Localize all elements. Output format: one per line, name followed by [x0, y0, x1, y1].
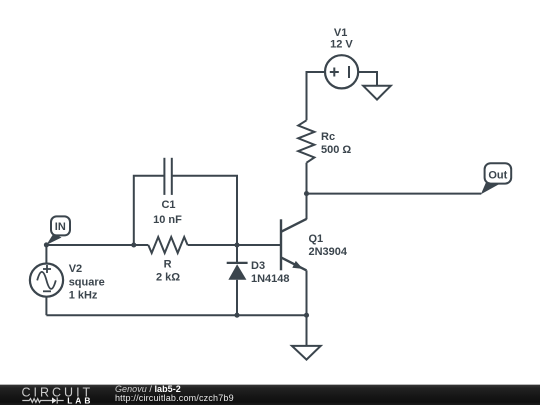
svg-text:Out: Out: [488, 170, 507, 182]
footer title text: [115, 385, 234, 404]
resistor R: [148, 237, 187, 253]
ground (at V1): [363, 86, 391, 100]
svg-text:C1: C1: [161, 199, 175, 211]
svg-text:Rc: Rc: [321, 131, 335, 143]
CircuitLab logo: [21, 384, 101, 405]
svg-text:Q1: Q1: [309, 233, 324, 245]
svg-text:2 kΩ: 2 kΩ: [156, 272, 180, 284]
wire R to Q1 base: [188, 244, 281, 246]
transistor Q1 emitter arrow: [292, 261, 303, 269]
wire V2 bottom lead: [45, 297, 47, 316]
footer bar: [0, 384, 540, 405]
capacitor C1: [164, 158, 171, 195]
transistor Q1: [281, 219, 307, 271]
wire V1 positive lead to collector rail: [307, 72, 326, 120]
node junction D3 cathode / base rail: [234, 242, 239, 247]
wire V1 negative lead: [358, 72, 377, 86]
svg-text:V1: V1: [334, 27, 347, 39]
wire Q1 emitter down to ground rail: [306, 270, 308, 315]
ground (bottom rail): [292, 346, 321, 360]
wire IN node to resistor R: [46, 244, 148, 246]
svg-text:500 Ω: 500 Ω: [321, 144, 351, 156]
svg-text:10 nF: 10 nF: [153, 214, 182, 226]
svg-text:2N3904: 2N3904: [309, 246, 348, 258]
svg-text:LAB: LAB: [67, 396, 93, 405]
wire C1 left branch: [134, 176, 165, 245]
wire ground stem: [306, 315, 308, 346]
wire C1 right branch: [172, 176, 237, 245]
diode D3: [227, 245, 248, 315]
wire Rc to Q1 collector: [306, 163, 308, 220]
node flag IN: [46, 216, 70, 245]
node Out junction: [304, 191, 309, 196]
wire ground rail: [46, 314, 306, 316]
voltage source V1: [325, 55, 358, 88]
resistor Rc: [298, 120, 314, 162]
svg-text:R: R: [164, 259, 172, 271]
wire IN node down to V2: [45, 245, 47, 264]
svg-text:1N4148: 1N4148: [251, 273, 290, 285]
node IN junction: [44, 242, 49, 247]
node flag Out: [481, 163, 511, 194]
voltage source V2: [30, 264, 63, 297]
svg-text:V2: V2: [69, 263, 82, 275]
svg-text:D3: D3: [251, 260, 265, 272]
svg-text:12 V: 12 V: [330, 39, 353, 51]
svg-text:IN: IN: [55, 221, 66, 233]
wire node Out horizontal run: [307, 193, 482, 195]
svg-text:square: square: [69, 276, 105, 288]
node junction emitter / ground rail: [304, 313, 309, 318]
svg-text:1 kHz: 1 kHz: [69, 289, 98, 301]
node junction D3 anode / ground rail: [234, 313, 239, 318]
node junction C1 left / base rail: [131, 242, 136, 247]
